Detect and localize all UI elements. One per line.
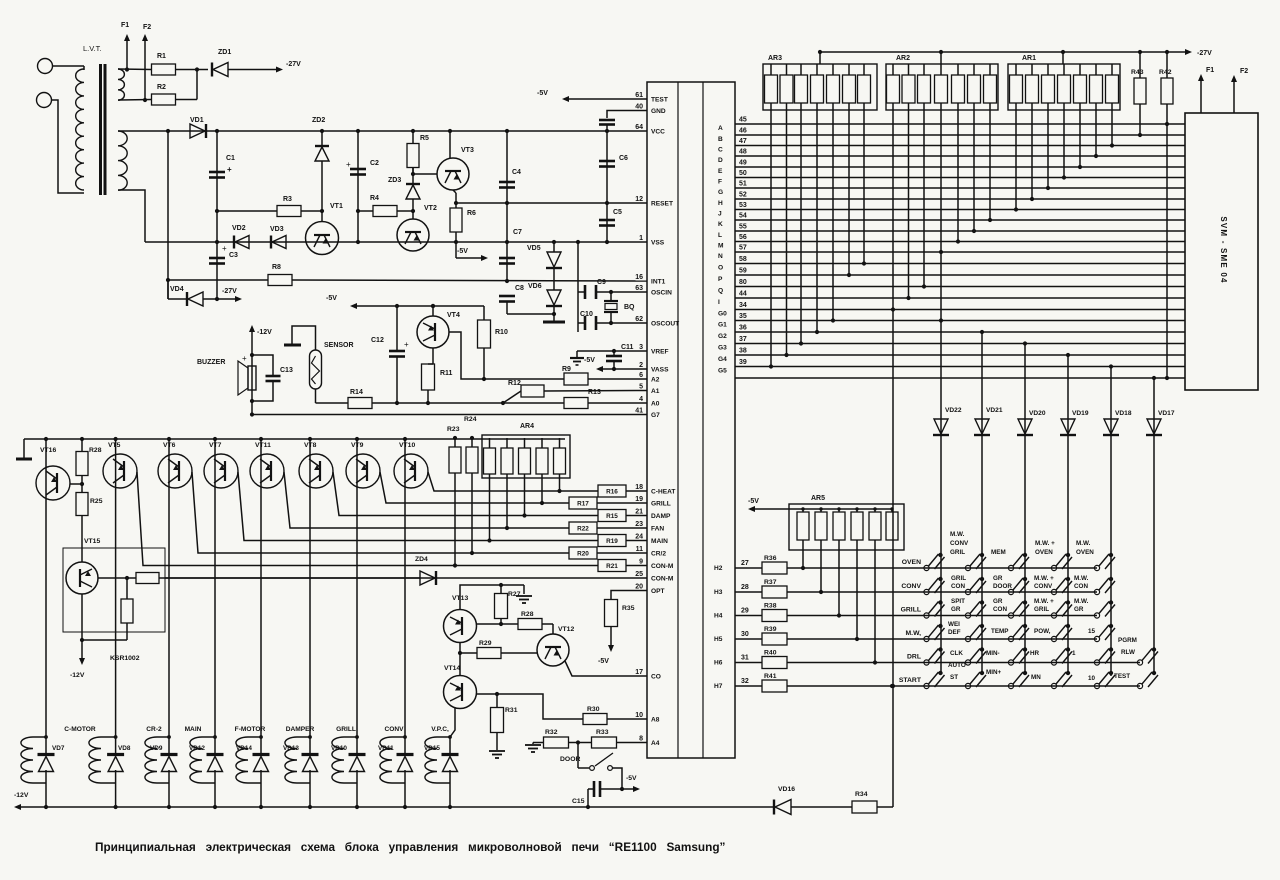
svg-text:SPIT: SPIT [951,598,965,605]
svg-text:M.W.: M.W. [950,531,965,538]
svg-text:VT9: VT9 [351,442,364,449]
switch row3 col4 [1066,600,1070,604]
wire door to -5V arrow [613,768,623,789]
svg-text:5: 5 [639,384,643,391]
transformer L.V.T. plug terminal 1 [38,59,53,74]
matrix vertical wires from AR2 [908,103,910,298]
svg-text:L.V.T.: L.V.T. [83,44,102,53]
diode VD4 [167,280,169,299]
svg-text:CONV: CONV [950,540,969,547]
svg-text:50: 50 [739,170,747,177]
svg-text:R16: R16 [606,489,618,496]
resistor AR1-1 [1010,75,1023,103]
capacitor C6 [606,131,608,203]
transformer secondary winding lower [118,131,127,190]
resistor R31 [496,694,498,708]
wire segment net 48 [735,155,1185,157]
svg-text:+: + [346,160,351,169]
wire segment net 49 [735,166,1185,168]
resistor R40 [735,662,762,664]
resistor R36 [735,567,762,569]
svg-text:4: 4 [639,396,643,403]
switch row6 col3 [1023,671,1027,675]
svg-text:ZD2: ZD2 [312,117,325,124]
zener diode ZD3 [412,211,414,220]
svg-text:VD13: VD13 [283,745,299,752]
svg-text:BQ: BQ [624,304,635,311]
switch row1 col2 [980,553,984,557]
svg-text:VD17: VD17 [1158,410,1175,417]
svg-text:21: 21 [635,509,643,516]
svg-text:F2: F2 [1240,68,1248,75]
resistor AR5-5 [869,512,881,540]
svg-text:M.W,: M.W, [906,630,922,637]
svg-text:VD4: VD4 [170,286,184,293]
svg-text:-5V: -5V [598,658,609,665]
diode VD3 [270,236,272,249]
svg-text:GRIL: GRIL [950,549,965,556]
wire VT13 collector top with ground [460,585,524,610]
svg-text:ZD3: ZD3 [388,177,401,184]
svg-text:R20: R20 [577,551,589,558]
svg-text:53: 53 [739,202,747,209]
wire OPT row pin 20 to R35 [611,591,647,601]
svg-text:-12V: -12V [70,672,85,679]
svg-text:VT8: VT8 [304,442,317,449]
svg-text:N: N [718,253,723,260]
resistor AR2-4 [935,75,948,103]
svg-text:-5V: -5V [584,357,595,364]
capacitor C11 [613,351,615,356]
svg-text:GRILL: GRILL [901,607,921,614]
switch row5 col1 [938,647,942,651]
transistor VT10 [394,454,428,488]
resistor R6 and VT3 emitter [453,190,456,193]
resistor AR1-3 [1042,75,1055,103]
svg-text:C13: C13 [280,367,293,374]
svg-text:M.W. +: M.W. + [1035,540,1055,547]
svg-text:36: 36 [739,325,747,332]
svg-text:G7: G7 [651,412,660,419]
wire VT4 base to A2 row [449,332,484,379]
wire segment net 34 [735,309,1185,311]
svg-text:+: + [242,354,247,363]
svg-text:8: 8 [639,736,643,743]
svg-text:R41: R41 [764,673,777,680]
resistor AR3-7 [858,75,871,103]
svg-text:L: L [718,232,722,239]
wire VT14 base to A8 row [477,694,584,719]
svg-text:+: + [227,165,232,174]
svg-text:17: 17 [635,669,643,676]
svg-text:34: 34 [739,302,747,309]
crystal BQ [610,292,612,301]
transistor VT8 [299,454,333,488]
resistor AR1-7 [1106,75,1119,103]
diode VD12 [214,737,216,755]
svg-text:H2: H2 [714,565,723,572]
switch row3 col5 [1109,600,1113,604]
filament F1 arrow [1200,81,1202,113]
svg-text:G4: G4 [718,356,727,363]
svg-text:A8: A8 [651,717,660,724]
wire segment net 56 [735,241,1185,243]
wire segment net 50 [735,177,1185,179]
svg-text:18: 18 [635,484,643,491]
resistor AR2-3 [918,75,931,103]
svg-text:CLK: CLK [950,650,963,657]
resistor AR5-3 [833,512,845,540]
filament F2 arrow [1233,82,1235,113]
svg-text:V.P.C,: V.P.C, [431,726,449,733]
svg-text:R42: R42 [1159,69,1172,76]
svg-text:K: K [718,221,723,228]
switch row4 col1 [938,624,942,628]
svg-text:24: 24 [635,534,643,541]
svg-text:R21: R21 [606,563,618,570]
resistor AR5-1 [797,512,809,540]
svg-text:R17: R17 [577,501,589,508]
wire keyboard column 5 [1110,367,1112,677]
diode VD13 [309,737,311,755]
resistor AR1-4 [1058,75,1071,103]
svg-text:VD20: VD20 [1029,410,1046,417]
svg-text:-5V: -5V [626,775,637,782]
svg-text:C12: C12 [371,337,384,344]
svg-text:H5: H5 [714,636,723,643]
svg-text:VT6: VT6 [163,442,176,449]
svg-text:R32: R32 [545,729,558,736]
wire long vertical AR2-1 to keyboard and R34 [892,103,894,807]
svg-text:VD10: VD10 [331,745,347,752]
svg-text:-27V: -27V [222,288,237,295]
svg-text:A1: A1 [651,388,660,395]
resistor array AR4 box [482,435,570,478]
resistor AR3-6 [843,75,856,103]
svg-text:MAIN: MAIN [185,726,202,733]
zener diode ZD4 [420,571,435,585]
wires IC row resistors R16 R17 R15 R22 R19 R20 R21 [560,490,599,492]
svg-text:GR: GR [1074,606,1084,613]
switch row1 col5 [1109,553,1113,557]
diode VD11 [404,737,406,755]
resistor R11 [432,348,434,364]
svg-text:+: + [404,340,409,349]
switch row1 col4 [1066,553,1070,557]
svg-text:VSS: VSS [651,240,665,247]
wires AR5 to keyboard rows [802,540,804,568]
svg-text:C15: C15 [572,798,585,805]
resistor R34 [791,806,852,808]
svg-text:A: A [718,125,723,132]
resistor R28 at VT16 [76,452,88,476]
svg-text:WEI: WEI [948,621,960,628]
svg-text:63: 63 [635,285,643,292]
svg-text:VT5: VT5 [108,442,121,449]
wire keyboard column 2 [981,332,983,674]
svg-text:C2: C2 [370,160,379,167]
svg-text:C3: C3 [229,252,238,259]
wire segment net 35 [735,320,1185,322]
wire AR5 top bus with -5V arrow [754,508,892,510]
svg-text:20: 20 [635,584,643,591]
svg-text:C7: C7 [513,229,522,236]
switch row6 col1 [938,671,942,675]
svg-text:GR: GR [951,606,961,613]
svg-text:32: 32 [741,678,749,685]
resistor AR2-2 [902,75,915,103]
svg-text:37: 37 [739,336,747,343]
wire secondary lower bottom lead [118,190,145,242]
svg-text:AR1: AR1 [1022,55,1036,62]
switch row1 col3 [1023,553,1027,557]
switch row1 col1 [938,553,942,557]
svg-text:R39: R39 [764,626,777,633]
crystal oscillator group C9 [577,242,579,332]
svg-text:DOOR: DOOR [560,756,580,763]
wire keyboard row DRL [787,662,1140,664]
resistor R25 [76,493,88,516]
diode VD1 [190,124,205,138]
diode VD15 [449,737,451,755]
svg-text:CONV: CONV [384,726,404,733]
wire segment net 47 [735,145,1185,147]
wire CON-M row pin 25 long to ZD4 [165,577,647,579]
svg-text:VT12: VT12 [558,626,574,633]
capacitor C8 [499,295,515,298]
svg-text:POW,: POW, [1034,628,1051,635]
svg-text:TEST: TEST [651,97,668,104]
svg-text:ZD1: ZD1 [218,49,231,56]
wire R34 to START row [877,806,893,808]
svg-text:VD7: VD7 [52,745,65,752]
relay CR-2 coil [145,737,157,783]
capacitor C13 [252,355,273,376]
resistor AR2-6 [968,75,981,103]
svg-text:F1: F1 [1206,67,1214,74]
switch row2 col4 [1066,577,1070,581]
switch row5 col5 [1109,647,1113,651]
wire secondary upper leads [118,68,151,71]
svg-text:27: 27 [741,560,749,567]
svg-text:VD19: VD19 [1072,410,1089,417]
svg-text:M.W.: M.W. [1076,540,1091,547]
resistor R39 [735,638,762,640]
diode VD17 [1147,419,1161,434]
diode VD18 [1104,419,1118,434]
svg-text:3: 3 [639,344,643,351]
svg-text:C-HEAT: C-HEAT [651,489,675,496]
diode VD9 [168,737,170,755]
svg-text:R36: R36 [764,555,777,562]
svg-text:C6: C6 [619,155,628,162]
wire segment net 36 [735,331,1185,333]
svg-text:AUTO: AUTO [948,662,966,669]
wire VT16 base [70,483,82,485]
switch row4 col4 [1066,624,1070,628]
diode VD2 [233,236,235,249]
svg-text:GRILL: GRILL [336,726,356,733]
svg-text:G1: G1 [718,322,727,329]
svg-text:VD15: VD15 [424,745,440,752]
transistor VT12 [552,624,554,634]
svg-text:VT15: VT15 [84,538,100,545]
resistor AR4-3 [519,448,531,474]
svg-text:R2: R2 [157,84,166,91]
resistor R5 [407,144,419,168]
resistor R38 [735,615,762,617]
svg-text:HR: HR [1030,650,1040,657]
svg-text:R12: R12 [508,380,521,387]
svg-text:64: 64 [635,124,643,131]
svg-text:VD8: VD8 [118,745,131,752]
svg-text:40: 40 [635,104,643,111]
transistor VT2 [397,219,429,251]
svg-text:54: 54 [739,213,747,220]
resistor R43 [1134,78,1146,104]
capacitor C3 [209,257,225,260]
svg-text:49: 49 [739,160,747,167]
svg-text:M.W. +: M.W. + [1034,575,1054,582]
net -5V arrow below R35 [610,627,612,646]
svg-text:R37: R37 [764,579,777,586]
svg-text:-27V: -27V [1197,50,1212,57]
svg-text:CR/2: CR/2 [651,551,666,558]
wire driver bus [24,438,565,440]
zener diode ZD2 [321,131,323,146]
svg-text:R35: R35 [622,605,635,612]
wire VT15 emitter to -12V [81,594,83,640]
svg-text:VD18: VD18 [1115,410,1132,417]
wire CO row pin 17 [565,661,647,676]
svg-text:R34: R34 [855,791,868,798]
svg-text:H3: H3 [714,589,723,596]
resistor KSR1002 base [98,577,136,579]
capacitor C1 [209,171,225,174]
wire plug2 to primary bottom [52,100,85,193]
diode VD16 [773,800,775,815]
wire VREF row pin 3 with ground [577,350,647,352]
resistor AR4-2 [501,448,513,474]
svg-text:GRILL: GRILL [651,501,671,508]
wire -27V rail vertical [167,131,169,299]
transistor VT4 [417,316,449,348]
resistor R28b [476,623,518,625]
svg-text:R14: R14 [350,389,363,396]
svg-text:G: G [718,189,723,196]
relay K1 coil [21,737,33,783]
svg-text:VD5: VD5 [527,245,541,252]
svg-text:R27: R27 [508,591,521,598]
diode VD14 [260,737,262,755]
transformer core [99,64,102,195]
svg-text:19: 19 [635,496,643,503]
wire segment net 37 [735,343,1185,345]
diode VD20 [1018,419,1032,434]
svg-text:A0: A0 [651,401,660,408]
svg-text:R8: R8 [272,264,281,271]
diode VD7 [45,737,47,755]
svg-text:25: 25 [635,571,643,578]
svg-text:CR-2: CR-2 [146,726,162,733]
wire keyboard row START [787,685,1140,687]
transistor VT5 [103,454,137,488]
svg-text:VREF: VREF [651,349,669,356]
transistor VT14 [459,653,461,676]
svg-text:R25: R25 [90,498,103,505]
resistor R42 [1161,78,1173,104]
svg-text:R29: R29 [479,640,492,647]
svg-text:MEM: MEM [991,549,1006,556]
svg-text:VASS: VASS [651,367,669,374]
wire keyboard row CONV [787,591,1097,593]
svg-text:1: 1 [639,235,643,242]
svg-text:GR: GR [993,575,1003,582]
svg-text:R10: R10 [495,329,508,336]
switch row5 col6 [1152,647,1156,651]
relay MAIN coil [190,737,202,783]
svg-text:J: J [718,211,722,218]
svg-text:C10: C10 [580,311,593,318]
svg-text:C-MOTOR: C-MOTOR [64,726,96,733]
relay C-MOTOR coil [89,737,101,783]
ground at driver bus [23,439,25,458]
svg-text:VT4: VT4 [447,312,460,319]
svg-text:+: + [222,244,227,253]
transformer secondary winding upper [118,69,124,100]
svg-text:RLW: RLW [1121,649,1135,656]
svg-text:DRL: DRL [907,654,921,661]
resistor R10 [483,306,485,320]
svg-text:C5: C5 [613,209,622,216]
resistor AR5-6 [886,512,898,540]
svg-text:VT14: VT14 [444,665,460,672]
wire -27V top bus [820,51,1186,53]
svg-text:R15: R15 [606,513,618,520]
svg-text:CON: CON [1074,583,1088,590]
transformer L.V.T. plug terminal 2 [37,93,52,108]
svg-text:35: 35 [739,313,747,320]
wire segment net 54 [735,219,1185,221]
transistor VT9 [346,454,380,488]
svg-text:29: 29 [741,608,749,615]
svg-text:MN: MN [1031,674,1041,681]
svg-text:15: 15 [1088,628,1096,635]
svg-text:CONV: CONV [901,583,921,590]
svg-text:59: 59 [739,268,747,275]
svg-text:CONV: CONV [1034,583,1053,590]
svg-text:R40: R40 [764,650,777,657]
resistor AR5-4 [851,512,863,540]
svg-text:R3: R3 [283,196,292,203]
svg-text:R5: R5 [420,135,429,142]
svg-text:M.W. +: M.W. + [1034,598,1054,605]
svg-text:G3: G3 [718,345,727,352]
svg-text:SENSOR: SENSOR [324,342,354,349]
svg-text:OPT: OPT [651,588,665,595]
svg-text:CO: CO [651,674,661,681]
svg-text:MAIN: MAIN [651,538,668,545]
diode VD21 [975,419,989,434]
svg-text:M: M [718,243,724,250]
wire segment net 39 [735,366,1185,368]
transistor VT13 [444,610,477,643]
svg-text:58: 58 [739,256,747,263]
svg-text:OSCOUT: OSCOUT [651,321,679,328]
resistor AR4-1 [484,448,496,474]
switch row6 col2 [980,671,984,675]
wire to -27V net with arrow [228,69,276,71]
